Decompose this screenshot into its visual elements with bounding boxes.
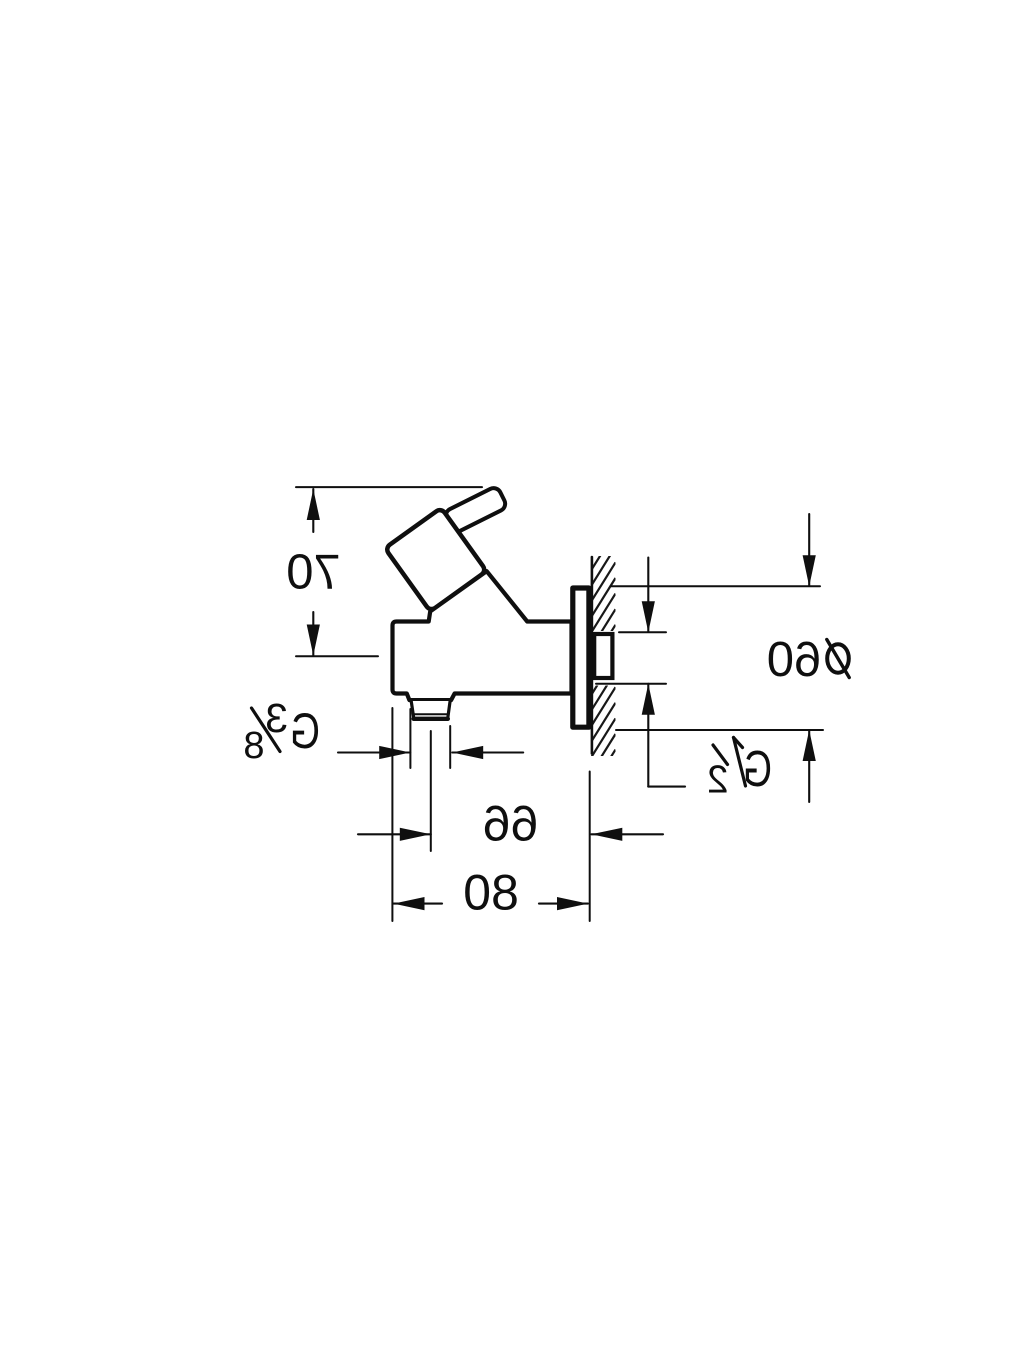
inlet nipple G1/2	[594, 634, 612, 678]
dimension text G3/8	[243, 695, 320, 767]
dimension G1/2 upper tick line	[619, 631, 666, 633]
spout inner line	[414, 713, 446, 715]
dimension 70 bottom extension line (body axis)	[296, 655, 378, 657]
svg-text:70: 70	[286, 546, 341, 600]
dimension text o60	[827, 644, 849, 672]
dimension G3/8 left extension line	[449, 726, 451, 768]
svg-text:2: 2	[707, 759, 728, 802]
wall hatching	[592, 500, 616, 804]
spout axis extension line	[430, 731, 432, 851]
dimension G3/8 right arrow	[338, 751, 410, 753]
svg-text:60: 60	[767, 633, 822, 687]
wall face extension line	[589, 772, 591, 922]
dimension o60 top extension line	[611, 585, 820, 587]
dimension G1/2 lower tick line	[596, 683, 666, 685]
dimension text G1/2	[707, 738, 772, 802]
spout tip edge	[414, 717, 448, 721]
dimension 70 top extension line	[296, 486, 482, 488]
svg-text:8: 8	[243, 725, 264, 767]
svg-text:80: 80	[463, 865, 519, 921]
dimension G3/8 left arrow	[452, 751, 523, 753]
svg-text:G: G	[743, 740, 772, 797]
dimension 80 left arrow	[539, 903, 588, 905]
svg-text:66: 66	[483, 796, 539, 852]
dimension o60 lower arrow	[808, 730, 810, 802]
handle knob	[385, 508, 487, 612]
svg-text:G: G	[290, 703, 320, 759]
dimension 70 upper arrow	[312, 489, 314, 532]
dimension o60 bottom extension line	[616, 729, 823, 731]
dimension 66 left arrow	[591, 833, 663, 835]
tap body	[393, 571, 572, 700]
handle stem	[443, 486, 507, 534]
dimension G1/2 lower arrow and leader	[647, 684, 649, 787]
dimension G1/2 upper arrow	[647, 558, 649, 632]
dimension 80 right arrow	[394, 903, 443, 905]
dimension G3/8 right extension line	[409, 709, 411, 768]
wall flange	[573, 588, 589, 727]
dimension 70 lower arrow	[312, 612, 314, 656]
body face extension line	[391, 708, 393, 921]
dimension o60 upper arrow	[808, 514, 810, 586]
dimension 66 right arrow	[358, 833, 431, 835]
wall line	[591, 557, 594, 754]
spout outlet	[411, 701, 450, 719]
